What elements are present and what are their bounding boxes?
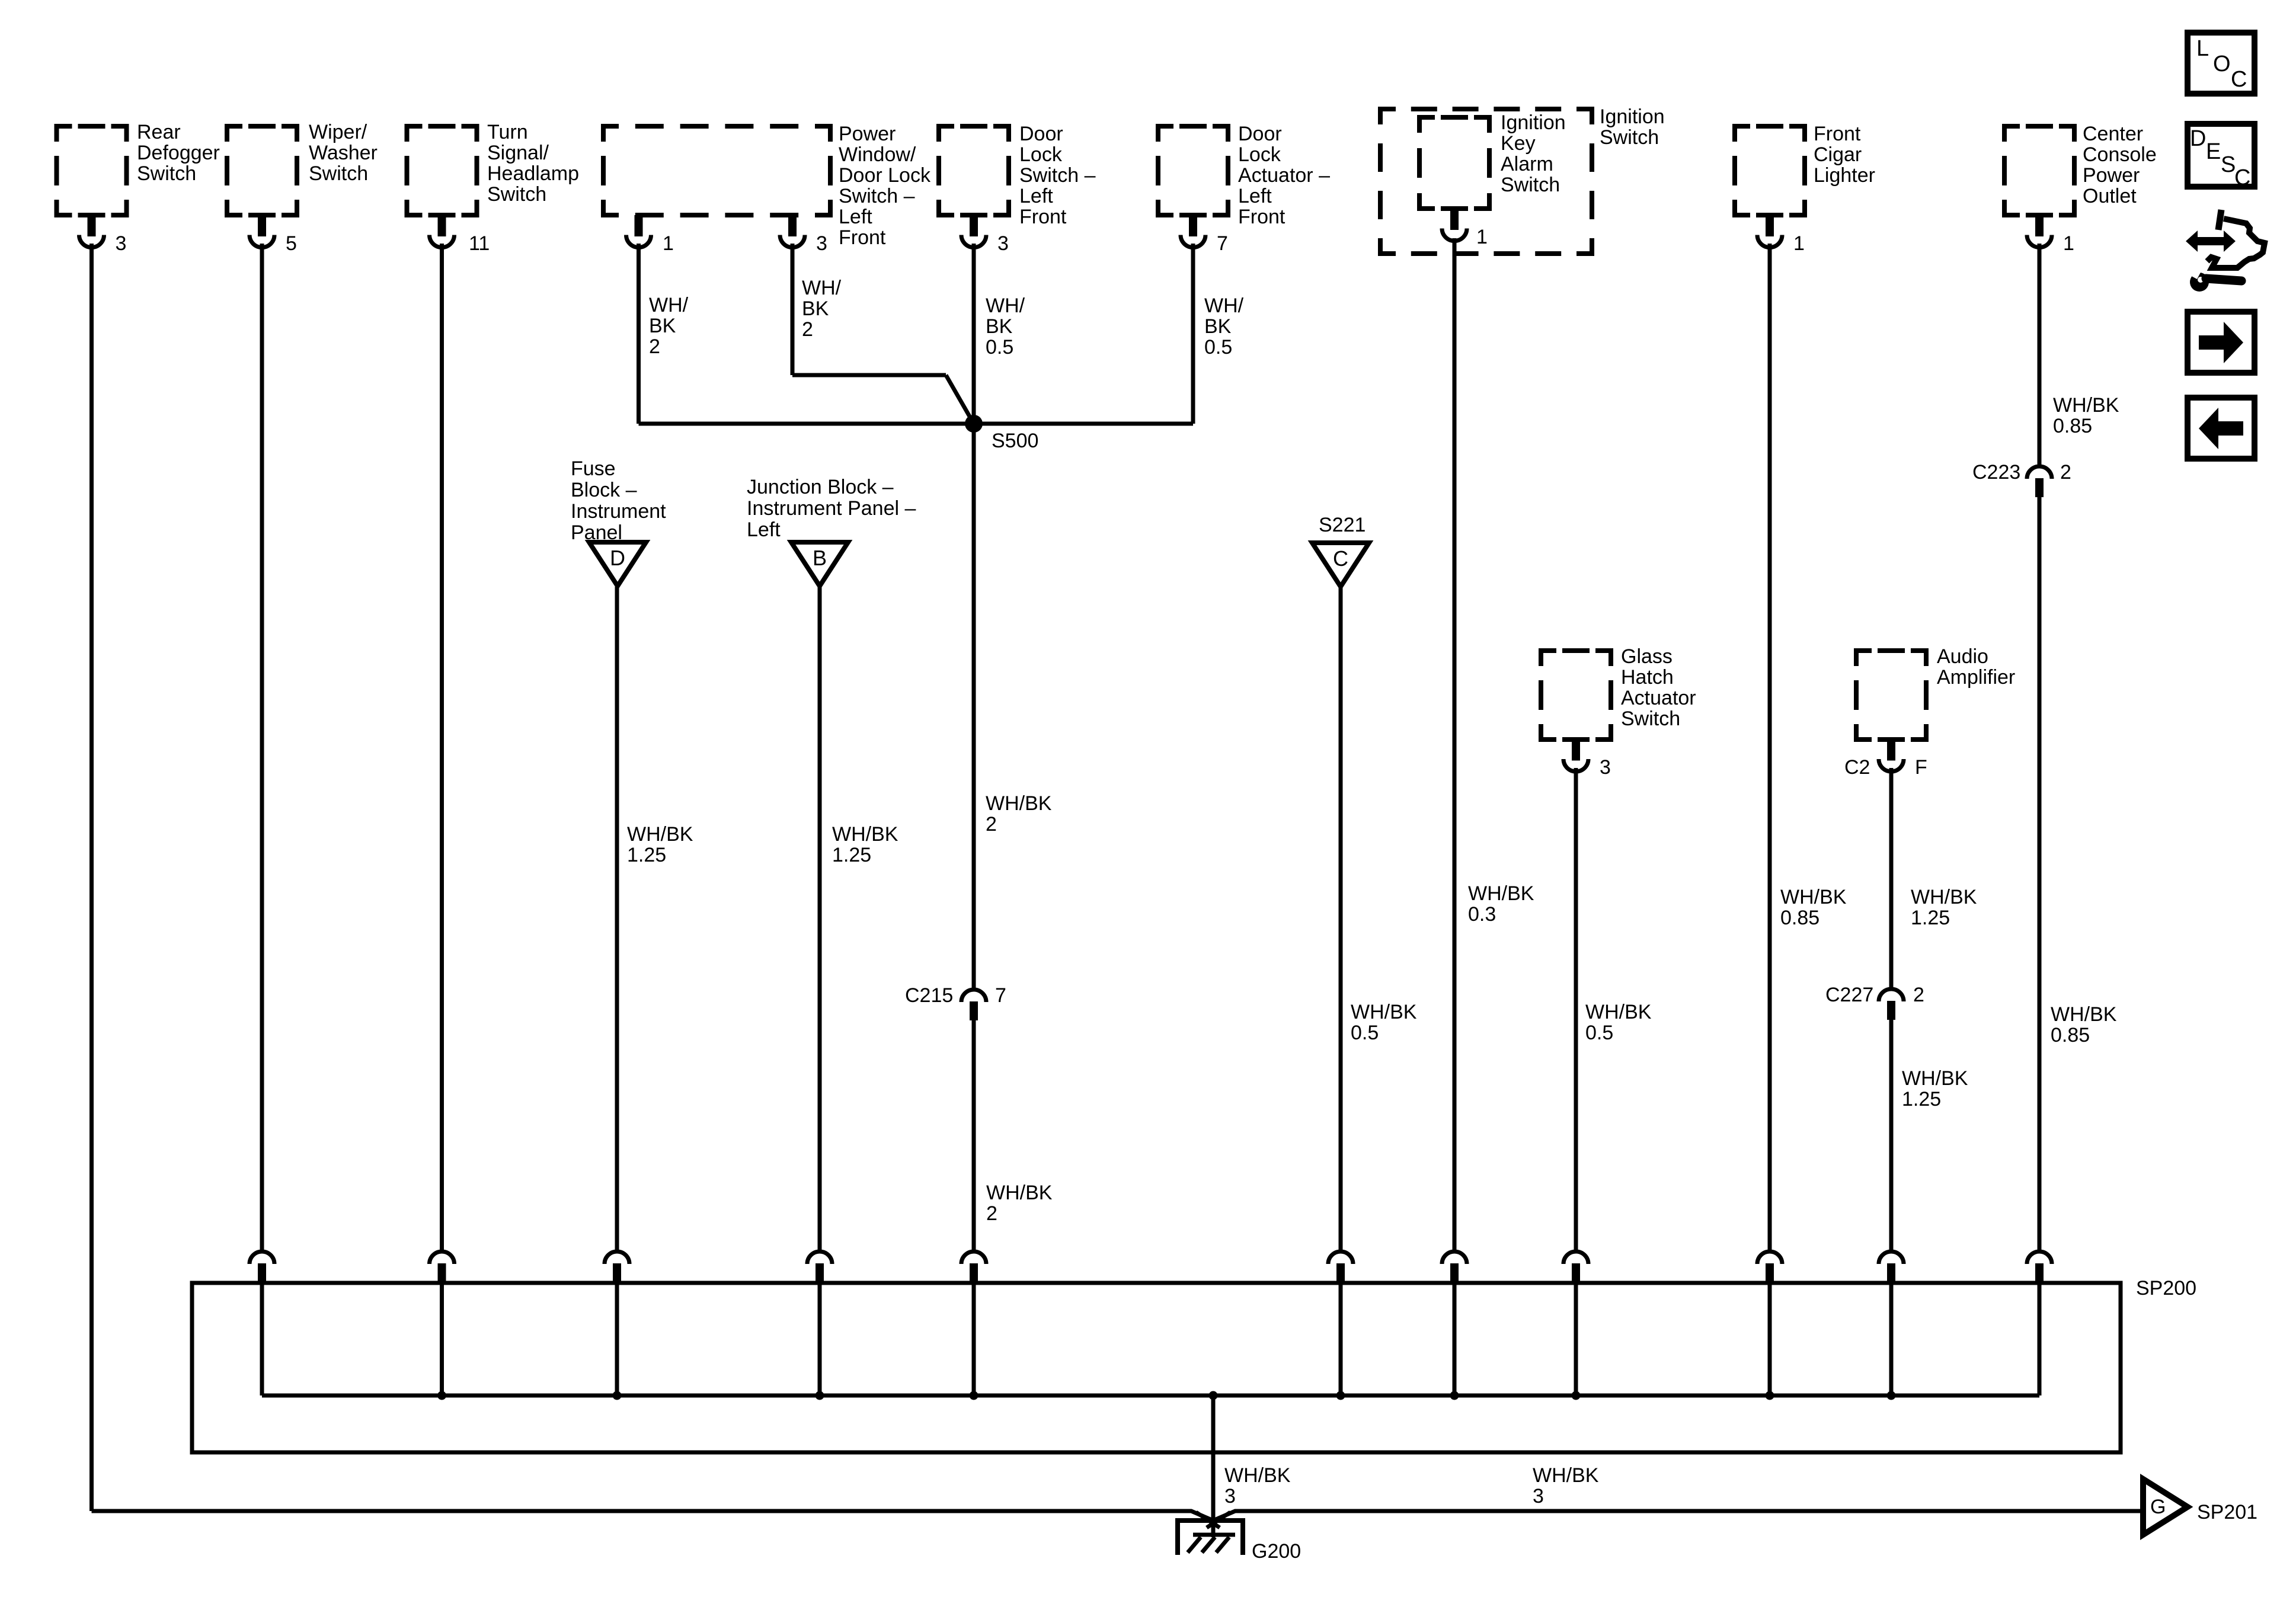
legend LOC box	[2188, 33, 2255, 94]
svg-text:Power: Power	[2083, 164, 2140, 187]
svg-text:0.5: 0.5	[986, 336, 1013, 359]
door lock actuator - left front (dashed box)	[1158, 123, 1330, 228]
splice S221 triangle C	[1312, 543, 1369, 587]
svg-text:2: 2	[2060, 461, 2071, 484]
svg-text:0.5: 0.5	[1204, 336, 1232, 359]
power window pin 1 connector	[626, 215, 674, 255]
svg-text:Left: Left	[1238, 185, 1272, 207]
svg-text:Washer: Washer	[309, 142, 378, 164]
turn signal pin 11 connector	[430, 215, 490, 255]
junction block - instrument panel left label	[747, 476, 916, 541]
SP200 bus connector (console outlet wire)	[2027, 1251, 2052, 1283]
svg-text:Left: Left	[747, 518, 781, 541]
svg-text:0.85: 0.85	[2051, 1024, 2090, 1046]
svg-text:Headlamp: Headlamp	[487, 162, 579, 185]
fuse block - instrument panel label	[571, 457, 666, 544]
svg-text:0.85: 0.85	[1780, 907, 1819, 929]
svg-text:7: 7	[1217, 232, 1228, 255]
junction dot on SP200 inner line	[1887, 1391, 1896, 1400]
label WH/BK 0.85 (cigar lighter wire)	[1780, 886, 1847, 929]
label WH/BK 2 below C215	[986, 1182, 1053, 1225]
svg-text:WH/BK: WH/BK	[1585, 1001, 1652, 1023]
rear defogger switch (dashed box)	[57, 121, 220, 215]
svg-text:Cigar: Cigar	[1814, 143, 1862, 166]
wire inside SP200	[440, 1283, 444, 1395]
wire SP201 splice line (left part)	[92, 1511, 1214, 1521]
center console power outlet (dashed box)	[2004, 123, 2157, 215]
svg-text:E: E	[2206, 139, 2221, 164]
wire door lock switch down through S500 to C215	[972, 244, 976, 988]
label WH/ BK 0.5 (door lock actuator wire)	[1204, 295, 1244, 359]
svg-text:C: C	[1333, 546, 1348, 571]
svg-text:Front: Front	[1019, 206, 1067, 228]
SP200 bus connector (S221 wire)	[1328, 1251, 1353, 1283]
wire rear defogger to SP201 line	[89, 244, 94, 1511]
junction dot on SP200 inner line	[1209, 1391, 1218, 1400]
label WH/BK 0.3 (ignition wire)	[1468, 882, 1534, 926]
svg-text:Door: Door	[1019, 123, 1063, 145]
SP200 bus connector (junction block B wire)	[807, 1251, 832, 1283]
svg-text:Wiper/: Wiper/	[309, 121, 367, 143]
svg-text:Power: Power	[839, 123, 896, 145]
svg-text:Ignition: Ignition	[1501, 111, 1566, 134]
svg-text:BK: BK	[649, 315, 676, 337]
svg-text:2: 2	[649, 335, 660, 358]
label WH/ BK 2 (power window pin3 wire)	[802, 277, 842, 341]
svg-text:11: 11	[469, 232, 490, 255]
svg-text:Lock: Lock	[1019, 143, 1063, 166]
svg-text:Fuse: Fuse	[571, 457, 616, 480]
svg-text:Switch –: Switch –	[839, 185, 915, 207]
SP200 inner collector line	[262, 1394, 2039, 1398]
svg-text:F: F	[1915, 756, 1927, 779]
svg-text:Actuator: Actuator	[1621, 687, 1696, 709]
label WH/BK 2 above C215	[986, 792, 1052, 836]
door lock actuator pin 7 connector	[1181, 215, 1228, 255]
svg-text:Switch: Switch	[1501, 174, 1560, 196]
wire inside SP200	[1453, 1283, 1457, 1395]
svg-text:D: D	[610, 546, 625, 570]
wire power window pin3 diagonal to S500	[946, 375, 974, 424]
svg-text:WH/BK: WH/BK	[986, 792, 1052, 815]
svg-text:0.3: 0.3	[1468, 903, 1496, 926]
svg-text:1: 1	[1793, 232, 1805, 255]
svg-text:WH/BK: WH/BK	[1533, 1464, 1599, 1487]
junction dot on SP200 inner line	[613, 1391, 622, 1400]
svg-text:C2: C2	[1844, 756, 1870, 779]
svg-text:WH/BK: WH/BK	[627, 823, 693, 846]
ground G200 symbol	[1178, 1521, 1301, 1563]
wire power window pin3 horizontal	[792, 373, 946, 377]
svg-text:C215: C215	[905, 984, 953, 1007]
svg-text:3: 3	[816, 232, 827, 255]
svg-text:Defogger: Defogger	[137, 142, 220, 164]
svg-text:3: 3	[997, 232, 1009, 255]
connector C215 pin 7	[905, 984, 1006, 1020]
svg-text:Front: Front	[1814, 123, 1861, 145]
junction block triangle B	[791, 542, 848, 586]
svg-text:Lighter: Lighter	[1814, 164, 1875, 187]
rear defogger pin 3 connector	[79, 215, 127, 255]
wire audio amplifier to C227	[1889, 768, 1894, 987]
svg-text:WH/BK: WH/BK	[1468, 882, 1534, 905]
svg-text:2: 2	[802, 318, 813, 341]
SP200 bus connector (fuse block D wire)	[605, 1251, 629, 1283]
svg-text:Actuator –: Actuator –	[1238, 164, 1330, 187]
svg-text:B: B	[813, 546, 827, 570]
wire inside SP200	[1574, 1283, 1578, 1395]
wire center console outlet to C223	[2038, 244, 2042, 465]
wire inside SP200	[2038, 1283, 2042, 1395]
svg-text:3: 3	[116, 232, 127, 255]
svg-text:0.85: 0.85	[2053, 415, 2092, 437]
svg-text:C: C	[2231, 67, 2247, 92]
svg-text:G200: G200	[1252, 1540, 1301, 1563]
SP200 bus connector (wiper wire)	[250, 1251, 274, 1283]
label WH/ BK 2 (power window pin1 wire)	[649, 294, 689, 358]
svg-text:Center: Center	[2083, 123, 2143, 145]
ignition key alarm pin 1 connector	[1442, 209, 1488, 248]
wire junction block B to SP200	[818, 587, 822, 1250]
wire C223 to SP200	[2038, 497, 2042, 1250]
legend DESC box	[2188, 124, 2255, 190]
ignition switch (outer dashed box)	[1380, 105, 1665, 254]
power window/door lock switch - left front (wide dashed box)	[603, 123, 931, 249]
svg-text:0.5: 0.5	[1351, 1022, 1379, 1044]
label WH/BK 0.5 (S221 wire)	[1351, 1001, 1417, 1044]
audio amplifier (dashed box)	[1856, 645, 2015, 740]
label WH/BK 1.25 (fuse block wire)	[627, 823, 693, 866]
svg-text:D: D	[2190, 126, 2206, 151]
wire power window pin1 down	[637, 244, 641, 424]
svg-text:Switch: Switch	[1600, 126, 1659, 149]
svg-text:Door Lock: Door Lock	[839, 164, 931, 187]
junction dot on SP200 inner line	[1572, 1391, 1581, 1400]
wiper/washer switch (dashed box)	[227, 121, 378, 215]
svg-text:WH/BK: WH/BK	[1780, 886, 1847, 908]
junction dot on SP200 inner line	[970, 1391, 978, 1400]
splice SP200 label	[2136, 1277, 2196, 1299]
turn signal/headlamp switch (dashed box)	[407, 121, 579, 215]
junction dot on SP200 inner line	[816, 1391, 824, 1400]
svg-text:C: C	[2234, 165, 2250, 190]
wire front cigar lighter to SP200	[1768, 244, 1772, 1250]
svg-text:Switch –: Switch –	[1019, 164, 1096, 187]
door lock switch pin 3 connector	[961, 215, 1009, 255]
connector C227 pin 2	[1825, 984, 1924, 1020]
label WH/BK 3 (left)	[1224, 1464, 1291, 1507]
glass hatch actuator switch (dashed box)	[1541, 645, 1696, 740]
svg-text:C227: C227	[1825, 984, 1873, 1006]
svg-text:1.25: 1.25	[627, 844, 666, 866]
svg-text:2: 2	[1913, 984, 1924, 1006]
svg-text:G: G	[2150, 1496, 2166, 1518]
svg-text:Block –: Block –	[571, 479, 637, 501]
svg-text:WH/BK: WH/BK	[986, 1182, 1053, 1204]
label WH/BK 1.25 above C227	[1911, 886, 1977, 929]
splice S500 junction dot	[965, 415, 1038, 452]
svg-text:WH/BK: WH/BK	[1224, 1464, 1291, 1487]
svg-text:Front: Front	[839, 226, 886, 249]
label WH/BK 1.25 (junction block wire)	[832, 823, 898, 866]
audio amplifier pin C2/F connector	[1844, 740, 1927, 779]
svg-text:Rear: Rear	[137, 121, 181, 143]
junction dot on SP200 inner line	[1336, 1391, 1345, 1400]
connector C223 pin 2	[1972, 461, 2071, 497]
wire glass hatch to SP200	[1574, 768, 1578, 1250]
svg-text:Audio: Audio	[1937, 645, 1988, 668]
svg-text:SP201: SP201	[2197, 1501, 2257, 1523]
svg-text:2: 2	[986, 1202, 997, 1225]
ignition key alarm switch (inner dashed box)	[1419, 111, 1566, 209]
svg-text:Left: Left	[1019, 185, 1053, 207]
wire SP201 splice line (right part)	[1213, 1511, 2143, 1521]
svg-text:L: L	[2196, 36, 2209, 61]
wire S221 to SP200	[1339, 585, 1343, 1250]
label WH/ BK 0.5 (door lock switch wire)	[986, 295, 1025, 359]
svg-text:3: 3	[1600, 756, 1611, 779]
wire inside SP200	[615, 1283, 619, 1395]
wire C215 to SP200	[972, 1020, 976, 1250]
svg-text:Alarm: Alarm	[1501, 153, 1553, 175]
svg-text:1: 1	[1476, 226, 1488, 248]
junction dot on SP200 inner line	[1766, 1391, 1774, 1400]
svg-text:WH/BK: WH/BK	[2051, 1003, 2117, 1026]
svg-text:1: 1	[2063, 232, 2074, 255]
fuse block triangle D	[589, 542, 646, 586]
wire door lock actuator to S500	[974, 422, 1193, 426]
svg-text:Junction Block –: Junction Block –	[747, 476, 894, 498]
wiper/washer pin 5 connector	[250, 215, 297, 255]
svg-text:WH/: WH/	[802, 277, 842, 299]
svg-text:SP200: SP200	[2136, 1277, 2196, 1299]
svg-text:2: 2	[986, 813, 997, 836]
legend forward arrow box	[2188, 312, 2255, 373]
svg-text:Instrument Panel –: Instrument Panel –	[747, 497, 916, 520]
svg-text:3: 3	[1533, 1485, 1544, 1507]
wire ignition key alarm to SP200	[1453, 238, 1457, 1250]
svg-text:WH/BK: WH/BK	[1911, 886, 1977, 908]
SP200 bus connector (glass hatch wire)	[1563, 1251, 1588, 1283]
label WH/BK 0.85 below C223	[2051, 1003, 2117, 1046]
svg-text:Switch: Switch	[1621, 708, 1680, 730]
svg-text:WH/BK: WH/BK	[1902, 1067, 1968, 1090]
wire inside SP200	[260, 1283, 264, 1395]
svg-text:WH/BK: WH/BK	[832, 823, 898, 846]
wire door lock actuator down	[1191, 244, 1195, 424]
label WH/BK 3 (right)	[1533, 1464, 1599, 1507]
svg-text:BK: BK	[1204, 315, 1232, 338]
svg-text:Switch: Switch	[309, 162, 368, 185]
wire inside SP200	[972, 1283, 976, 1395]
svg-text:WH/BK: WH/BK	[1351, 1001, 1417, 1023]
svg-text:Front: Front	[1238, 206, 1285, 228]
svg-text:Instrument: Instrument	[571, 500, 666, 523]
SP200 bus connector (turn signal wire)	[430, 1251, 455, 1283]
svg-text:Window/: Window/	[839, 143, 916, 166]
wire inside SP200	[818, 1283, 822, 1395]
wire inside SP200	[1768, 1283, 1772, 1395]
svg-text:WH/: WH/	[1204, 295, 1244, 317]
svg-text:Signal/: Signal/	[487, 142, 549, 164]
svg-text:Hatch: Hatch	[1621, 666, 1674, 689]
SP200 bus connector (cigar lighter wire)	[1757, 1251, 1782, 1283]
wire inside SP200	[1889, 1283, 1894, 1395]
svg-text:Lock: Lock	[1238, 143, 1281, 166]
front cigar lighter (dashed box)	[1735, 123, 1875, 215]
wire power window pin1 to S500	[639, 422, 974, 426]
svg-text:S500: S500	[992, 430, 1038, 452]
svg-text:C223: C223	[1972, 461, 2020, 484]
wire turn signal to SP200	[440, 244, 444, 1250]
center console power outlet pin 1 connector	[2027, 215, 2074, 255]
label WH/BK 0.85 above C223	[2053, 394, 2119, 437]
svg-text:BK: BK	[986, 315, 1013, 338]
splice SP201 G arrow	[2143, 1479, 2257, 1535]
svg-text:Ignition: Ignition	[1600, 105, 1665, 128]
svg-text:Console: Console	[2083, 143, 2157, 166]
svg-text:Switch: Switch	[487, 183, 546, 206]
front cigar lighter pin 1 connector	[1757, 215, 1805, 255]
svg-text:S221: S221	[1319, 514, 1366, 536]
legend car/service icon	[2186, 210, 2265, 292]
svg-text:Switch: Switch	[137, 162, 196, 185]
svg-text:Turn: Turn	[487, 121, 528, 143]
splice SP200 bus rectangle	[192, 1283, 2121, 1452]
svg-text:7: 7	[995, 984, 1006, 1007]
svg-text:Outlet: Outlet	[2083, 185, 2137, 207]
svg-text:WH/: WH/	[986, 295, 1025, 317]
SP200 bus connector (audio amp wire)	[1879, 1251, 1904, 1283]
svg-text:0.5: 0.5	[1585, 1022, 1613, 1044]
junction dot on SP200 inner line	[1450, 1391, 1459, 1400]
svg-text:Left: Left	[839, 206, 872, 228]
svg-text:1.25: 1.25	[1902, 1088, 1941, 1110]
door lock switch - left front (dashed box)	[939, 123, 1096, 228]
label WH/BK 0.5 (glass hatch wire)	[1585, 1001, 1652, 1044]
wire C227 to SP200	[1889, 1020, 1894, 1250]
G200 splice crossing strokes	[1196, 1512, 1230, 1528]
svg-text:Amplifier: Amplifier	[1937, 666, 2015, 689]
svg-text:WH/: WH/	[649, 294, 689, 316]
svg-text:Key: Key	[1501, 132, 1536, 155]
wire SP200 to G200 ground	[1211, 1395, 1216, 1537]
power window pin 3 connector	[780, 215, 827, 255]
svg-text:BK: BK	[802, 297, 829, 320]
wire fuse block D to SP200	[615, 587, 619, 1250]
SP200 bus connector (ignition wire)	[1442, 1251, 1467, 1283]
label WH/BK 1.25 below C227	[1902, 1067, 1968, 1110]
svg-text:1.25: 1.25	[832, 844, 871, 866]
svg-text:3: 3	[1224, 1485, 1236, 1507]
glass hatch pin 3 connector	[1563, 740, 1611, 779]
svg-text:Door: Door	[1238, 123, 1282, 145]
wire power window pin3 down	[791, 244, 795, 375]
SP200 bus connector (door lock S500 wire)	[961, 1251, 986, 1283]
svg-text:S: S	[2221, 152, 2236, 177]
svg-text:5: 5	[286, 232, 297, 255]
svg-text:1: 1	[663, 232, 674, 255]
wire inside SP200	[1339, 1283, 1343, 1395]
svg-text:O: O	[2213, 52, 2231, 76]
wire wiper/washer to SP200	[260, 244, 264, 1250]
svg-text:1.25: 1.25	[1911, 907, 1950, 929]
svg-text:Glass: Glass	[1621, 645, 1673, 668]
junction dot on SP200 inner line	[437, 1391, 446, 1400]
legend back arrow box	[2188, 398, 2255, 459]
splice S221 label	[1319, 514, 1366, 536]
svg-text:WH/BK: WH/BK	[2053, 394, 2119, 417]
